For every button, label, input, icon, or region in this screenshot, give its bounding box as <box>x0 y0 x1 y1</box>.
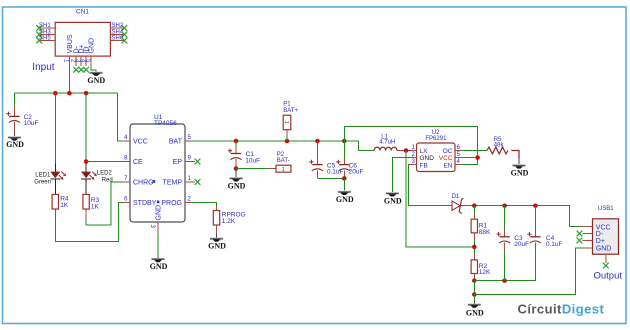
wire C6 to ground <box>343 178 345 190</box>
no-connect X on SH5 <box>36 38 42 44</box>
svg-text:P2: P2 <box>277 152 285 158</box>
wire RPROG to ground <box>216 234 218 237</box>
wire USB1 GND return <box>474 248 585 295</box>
junction at C4 top <box>533 203 538 208</box>
resistor RPROG top pin <box>216 206 218 211</box>
resistor R2 bottom pin <box>473 274 475 281</box>
U1 pin 6 STDBY stub <box>123 202 131 204</box>
svg-text:GND: GND <box>511 168 529 177</box>
USB1 output pin stub <box>605 254 607 263</box>
svg-text:FB: FB <box>420 162 428 169</box>
U2 pin 3 FB stub <box>410 164 417 166</box>
no-connect X on EP <box>195 159 201 165</box>
connector CN1 <box>55 22 110 56</box>
CN1 pin 2 D- stub <box>75 56 77 66</box>
svg-text:12K: 12K <box>479 269 491 276</box>
svg-text:D-: D- <box>596 231 604 238</box>
USB1 D+ pin stub <box>583 240 593 242</box>
diode D1 body <box>452 201 460 210</box>
svg-text:88K: 88K <box>479 229 491 236</box>
no-connect X on CN1 pin 3 <box>78 67 84 73</box>
ground symbol at RPROG <box>210 238 223 242</box>
CN1 pin 5 GND stub <box>90 56 92 66</box>
wire output line <box>468 206 579 227</box>
svg-text:20uF: 20uF <box>349 169 364 176</box>
LED D2 LED2 body <box>81 172 91 179</box>
USB1 VCC pin stub <box>579 226 593 228</box>
svg-text:GND: GND <box>336 195 354 204</box>
wire bus to LED2 <box>85 93 87 161</box>
junction at U2 VCC <box>475 155 480 160</box>
wire bus to LED1 <box>54 93 56 163</box>
capacitor C2 pin bottom <box>13 122 15 133</box>
junction ground return <box>472 292 477 297</box>
wire PROG to RPROG <box>193 203 217 207</box>
no-connect X on CN1 pin 2 <box>73 67 79 73</box>
wire BAT line <box>193 141 375 151</box>
svg-text:P1: P1 <box>283 102 291 108</box>
junction at VBUS/bus <box>67 91 72 96</box>
junction FB divider node <box>472 245 477 250</box>
U2 pin 1 LX stub <box>410 150 417 152</box>
wire U2 GND pin to ground <box>392 158 409 193</box>
svg-text:LX: LX <box>420 148 429 155</box>
wire power bus horizontal <box>14 92 117 94</box>
svg-text:BAT-: BAT- <box>277 158 290 164</box>
resistor R2 top pin <box>473 254 475 260</box>
svg-text:1K: 1K <box>60 202 69 209</box>
wire C5 bottom to C6 bottom <box>317 177 344 179</box>
CN1 pin 1 VBUS stub <box>68 56 70 66</box>
svg-text:Output: Output <box>594 270 623 281</box>
U1 pin 8 CE stub <box>123 161 131 163</box>
svg-text:1: 1 <box>282 167 285 173</box>
svg-text:EP: EP <box>173 159 183 166</box>
connector USB1 body <box>593 219 619 254</box>
connector P2 BAT- body <box>276 165 291 172</box>
wire R4 to STDBY <box>55 203 122 242</box>
capacitor C2 pin top <box>13 106 15 117</box>
svg-text:CHRG: CHRG <box>133 180 154 187</box>
wire L1 to LX <box>397 150 417 152</box>
diode D1 anode pin <box>444 205 452 207</box>
capacitor C1 pin top <box>235 141 237 147</box>
svg-text:1: 1 <box>283 121 289 124</box>
svg-text:CN1: CN1 <box>76 9 89 16</box>
wire LX node down to divider <box>406 151 474 248</box>
capacitor C5 pin bottom <box>316 170 318 178</box>
ground symbol at R5 <box>513 164 526 168</box>
wire bus right down to U1 VCC <box>118 93 123 141</box>
no-connect X on USB1 D+ <box>577 238 583 244</box>
svg-text:BAT: BAT <box>169 139 183 146</box>
U1 pin 3 GND stub <box>157 222 159 231</box>
capacitor C5 pin top <box>316 141 318 157</box>
LED1 bottom pin to R4 <box>54 179 56 194</box>
wire FB down to diode line <box>409 165 444 206</box>
wire C2 to ground <box>13 133 15 136</box>
resistor R4 bottom pin <box>54 209 56 220</box>
junction at C1 <box>234 139 239 144</box>
svg-text:CE: CE <box>133 159 143 166</box>
junction R2 bottom <box>472 278 477 283</box>
capacitor C5 <box>309 160 323 171</box>
junction at LX node <box>404 148 409 153</box>
wire C1 to P2 <box>236 168 268 170</box>
resistor R1 top pin <box>473 206 475 213</box>
LED1 cathode bar <box>50 178 60 180</box>
LED2 emission arrows <box>90 172 97 180</box>
svg-text:GND: GND <box>150 262 168 271</box>
resistor RPROG <box>213 211 219 226</box>
svg-text:TEMP: TEMP <box>163 180 183 187</box>
wire down to output ground <box>473 295 475 302</box>
svg-text:EN: EN <box>443 162 452 169</box>
wire R2 bottom down to ground node <box>473 281 475 295</box>
wire CE to LED2 line <box>86 161 122 163</box>
resistor R5 48k zigzag <box>487 147 508 154</box>
resistor R1 bottom pin <box>473 233 475 240</box>
LED2 top pin <box>85 164 87 172</box>
op-amp U1 TP4056 body <box>130 124 185 222</box>
svg-text:1.2K: 1.2K <box>222 218 236 225</box>
capacitor C6 pin bottom <box>343 170 345 178</box>
svg-text:LED2: LED2 <box>97 171 113 177</box>
capacitor C6 <box>336 160 350 171</box>
capacitor C1 <box>228 149 242 160</box>
svg-text:D+: D+ <box>596 238 605 245</box>
svg-text:LED1: LED1 <box>35 172 51 178</box>
no-connect X on SH2 <box>122 25 128 31</box>
U2 pin 4 EN stub <box>455 164 462 166</box>
wire U1 GND pin to ground <box>157 231 159 258</box>
svg-text:GND: GND <box>87 76 105 85</box>
junction at R1 top <box>472 203 477 208</box>
LED D1 LED1 body <box>50 172 60 179</box>
resistor R1 <box>471 219 477 233</box>
CN1 pin SH2 <box>110 27 124 29</box>
svg-text:GND: GND <box>89 38 96 54</box>
diode D1 cathode pin <box>461 205 468 207</box>
P1 pin stub <box>286 130 288 135</box>
LED1 top pin <box>54 164 56 172</box>
U1 pin 4 VCC stub <box>123 140 131 142</box>
USB1 D- pin stub <box>583 233 593 235</box>
wire R3 to CHRG <box>86 182 122 225</box>
U1 pin 9 EP stub <box>185 161 195 163</box>
wire C3 bottom <box>504 252 506 281</box>
junction C3 bottom <box>502 278 507 283</box>
CN1 pin SH3 <box>39 34 55 36</box>
capacitor C4 <box>527 232 541 243</box>
no-connect X on SH6 <box>122 38 128 44</box>
resistor R3 <box>83 195 89 210</box>
wire C1 to ground <box>235 169 237 178</box>
junction at P1 <box>285 139 290 144</box>
CN1 pin SH5 <box>39 40 55 42</box>
ground symbol at C2 <box>8 136 21 140</box>
regulator U2 FP6291 body <box>417 143 456 172</box>
svg-text:Green: Green <box>34 180 51 186</box>
capacitor C6 pin top <box>343 141 345 157</box>
LED2 bottom pin to R3 <box>85 179 87 194</box>
svg-text:CírcuitDigest: CírcuitDigest <box>518 302 605 317</box>
svg-text:GND: GND <box>466 309 484 318</box>
resistor R3 bottom pin <box>85 209 87 220</box>
no-connect X on SH4 <box>122 32 128 38</box>
diode D1 schottky bar <box>459 198 463 213</box>
wire bus down to C2 <box>13 93 15 105</box>
USB1 GND pin stub <box>585 247 593 249</box>
capacitor C2 <box>6 112 20 123</box>
no-connect X below USB1 <box>603 263 609 269</box>
no-connect X on TEMP <box>195 179 201 185</box>
resistor RPROG bottom pin <box>216 225 218 234</box>
inductor L1 <box>374 147 397 150</box>
wire R1 to R2 <box>473 240 475 254</box>
junction C1/P2 <box>234 166 239 171</box>
svg-text:GND: GND <box>6 140 24 149</box>
svg-text:1K: 1K <box>91 203 100 210</box>
U1 STDBY active-low blob <box>157 201 160 204</box>
CN1 pin SH6 <box>110 40 124 42</box>
svg-text:VCC: VCC <box>439 155 453 162</box>
svg-text:GND: GND <box>228 181 246 190</box>
svg-text:STDBY: STDBY <box>133 200 157 207</box>
svg-text:VCC: VCC <box>133 139 148 146</box>
svg-text:GND: GND <box>156 205 163 221</box>
junction at LED2 branch <box>84 91 89 96</box>
junction at C6/top feed <box>342 139 347 144</box>
junction at C3 top <box>502 203 507 208</box>
junction C6/ground <box>342 176 347 181</box>
CN1 pin 4 ID stub <box>85 56 87 66</box>
svg-text:Input: Input <box>32 62 54 73</box>
ground symbol at CN1 <box>90 72 103 76</box>
svg-text:4.7uH: 4.7uH <box>379 140 395 146</box>
ground symbol at C1 <box>230 177 243 181</box>
junction at LED1 branch <box>53 91 58 96</box>
svg-text:BAT+: BAT+ <box>283 108 298 114</box>
connector P2 pin stub <box>268 168 276 170</box>
no-connect X on USB1 D- <box>577 231 583 237</box>
capacitor C4 pin bottom <box>534 243 536 253</box>
svg-text:GND: GND <box>420 155 435 162</box>
capacitor C3 pin bottom <box>504 243 506 253</box>
U2 pin 6 OC stub <box>455 150 462 152</box>
svg-text:PROG: PROG <box>161 200 182 207</box>
junction at C5 <box>315 139 320 144</box>
wire OC to R5 <box>462 150 487 152</box>
connector P1 BAT+ body <box>283 115 291 130</box>
capacitor C1 pin bottom <box>235 159 237 168</box>
capacitor C3 <box>497 232 511 243</box>
no-connect X on SH3 <box>36 32 42 38</box>
U2 pin 2 GND stub <box>410 157 417 159</box>
U1 pin 2 PROG stub <box>185 202 193 204</box>
ground symbol at C6 <box>338 191 351 195</box>
ground symbol at U2 <box>386 192 399 196</box>
U1 CHRG active-low blob <box>153 180 156 183</box>
svg-text:20uF: 20uF <box>514 241 529 248</box>
resistor R4 <box>52 195 58 210</box>
svg-text:48k: 48k <box>494 142 505 148</box>
no-connect X on CN1 pin 4 <box>83 67 89 73</box>
no-connect X on SH1 <box>36 25 42 31</box>
LED1 emission arrows <box>59 172 66 180</box>
svg-text:TP4056: TP4056 <box>154 120 177 127</box>
resistor R2 <box>471 260 477 274</box>
junction at LED2/CE tap <box>84 159 89 164</box>
U1 pin 7 CHRG stub <box>123 181 131 183</box>
LED2 cathode bar <box>81 178 91 180</box>
capacitor C3 pin top <box>504 206 506 229</box>
CN1 pin SH1 <box>39 27 55 29</box>
svg-text:OC: OC <box>443 148 453 155</box>
svg-text:10uF: 10uF <box>245 157 260 164</box>
svg-text:USB1: USB1 <box>598 206 614 212</box>
svg-text:10uF: 10uF <box>24 120 39 127</box>
svg-text:GND: GND <box>384 196 402 205</box>
U1 pin 1 TEMP stub <box>185 181 195 183</box>
wire R5 to ground <box>511 151 519 160</box>
svg-text:D1: D1 <box>452 194 460 200</box>
capacitor C4 pin top <box>534 206 536 229</box>
ground symbol at output <box>468 304 481 308</box>
wire VBUS down to power bus <box>68 66 70 93</box>
wire P1 to BAT line <box>286 135 288 141</box>
svg-text:0.1uF: 0.1uF <box>546 241 563 248</box>
wire CN1 pin5 to ground <box>91 66 96 72</box>
wire R2 bottom to C3 C4 bottoms <box>474 252 535 281</box>
svg-text:GND: GND <box>596 246 612 253</box>
CN1 pin SH4 <box>110 34 124 36</box>
wire top feed C6 to VCC/EN <box>344 126 477 164</box>
svg-text:GND: GND <box>208 242 226 251</box>
wire VCC stub to junction <box>462 157 478 159</box>
CN1 pin 3 D+ stub <box>80 56 82 66</box>
U2 pin 5 VCC stub <box>455 157 462 159</box>
svg-text:FP6291: FP6291 <box>425 136 447 142</box>
U1 pin 5 BAT stub <box>185 140 193 142</box>
ground symbol at U1 <box>152 258 165 262</box>
